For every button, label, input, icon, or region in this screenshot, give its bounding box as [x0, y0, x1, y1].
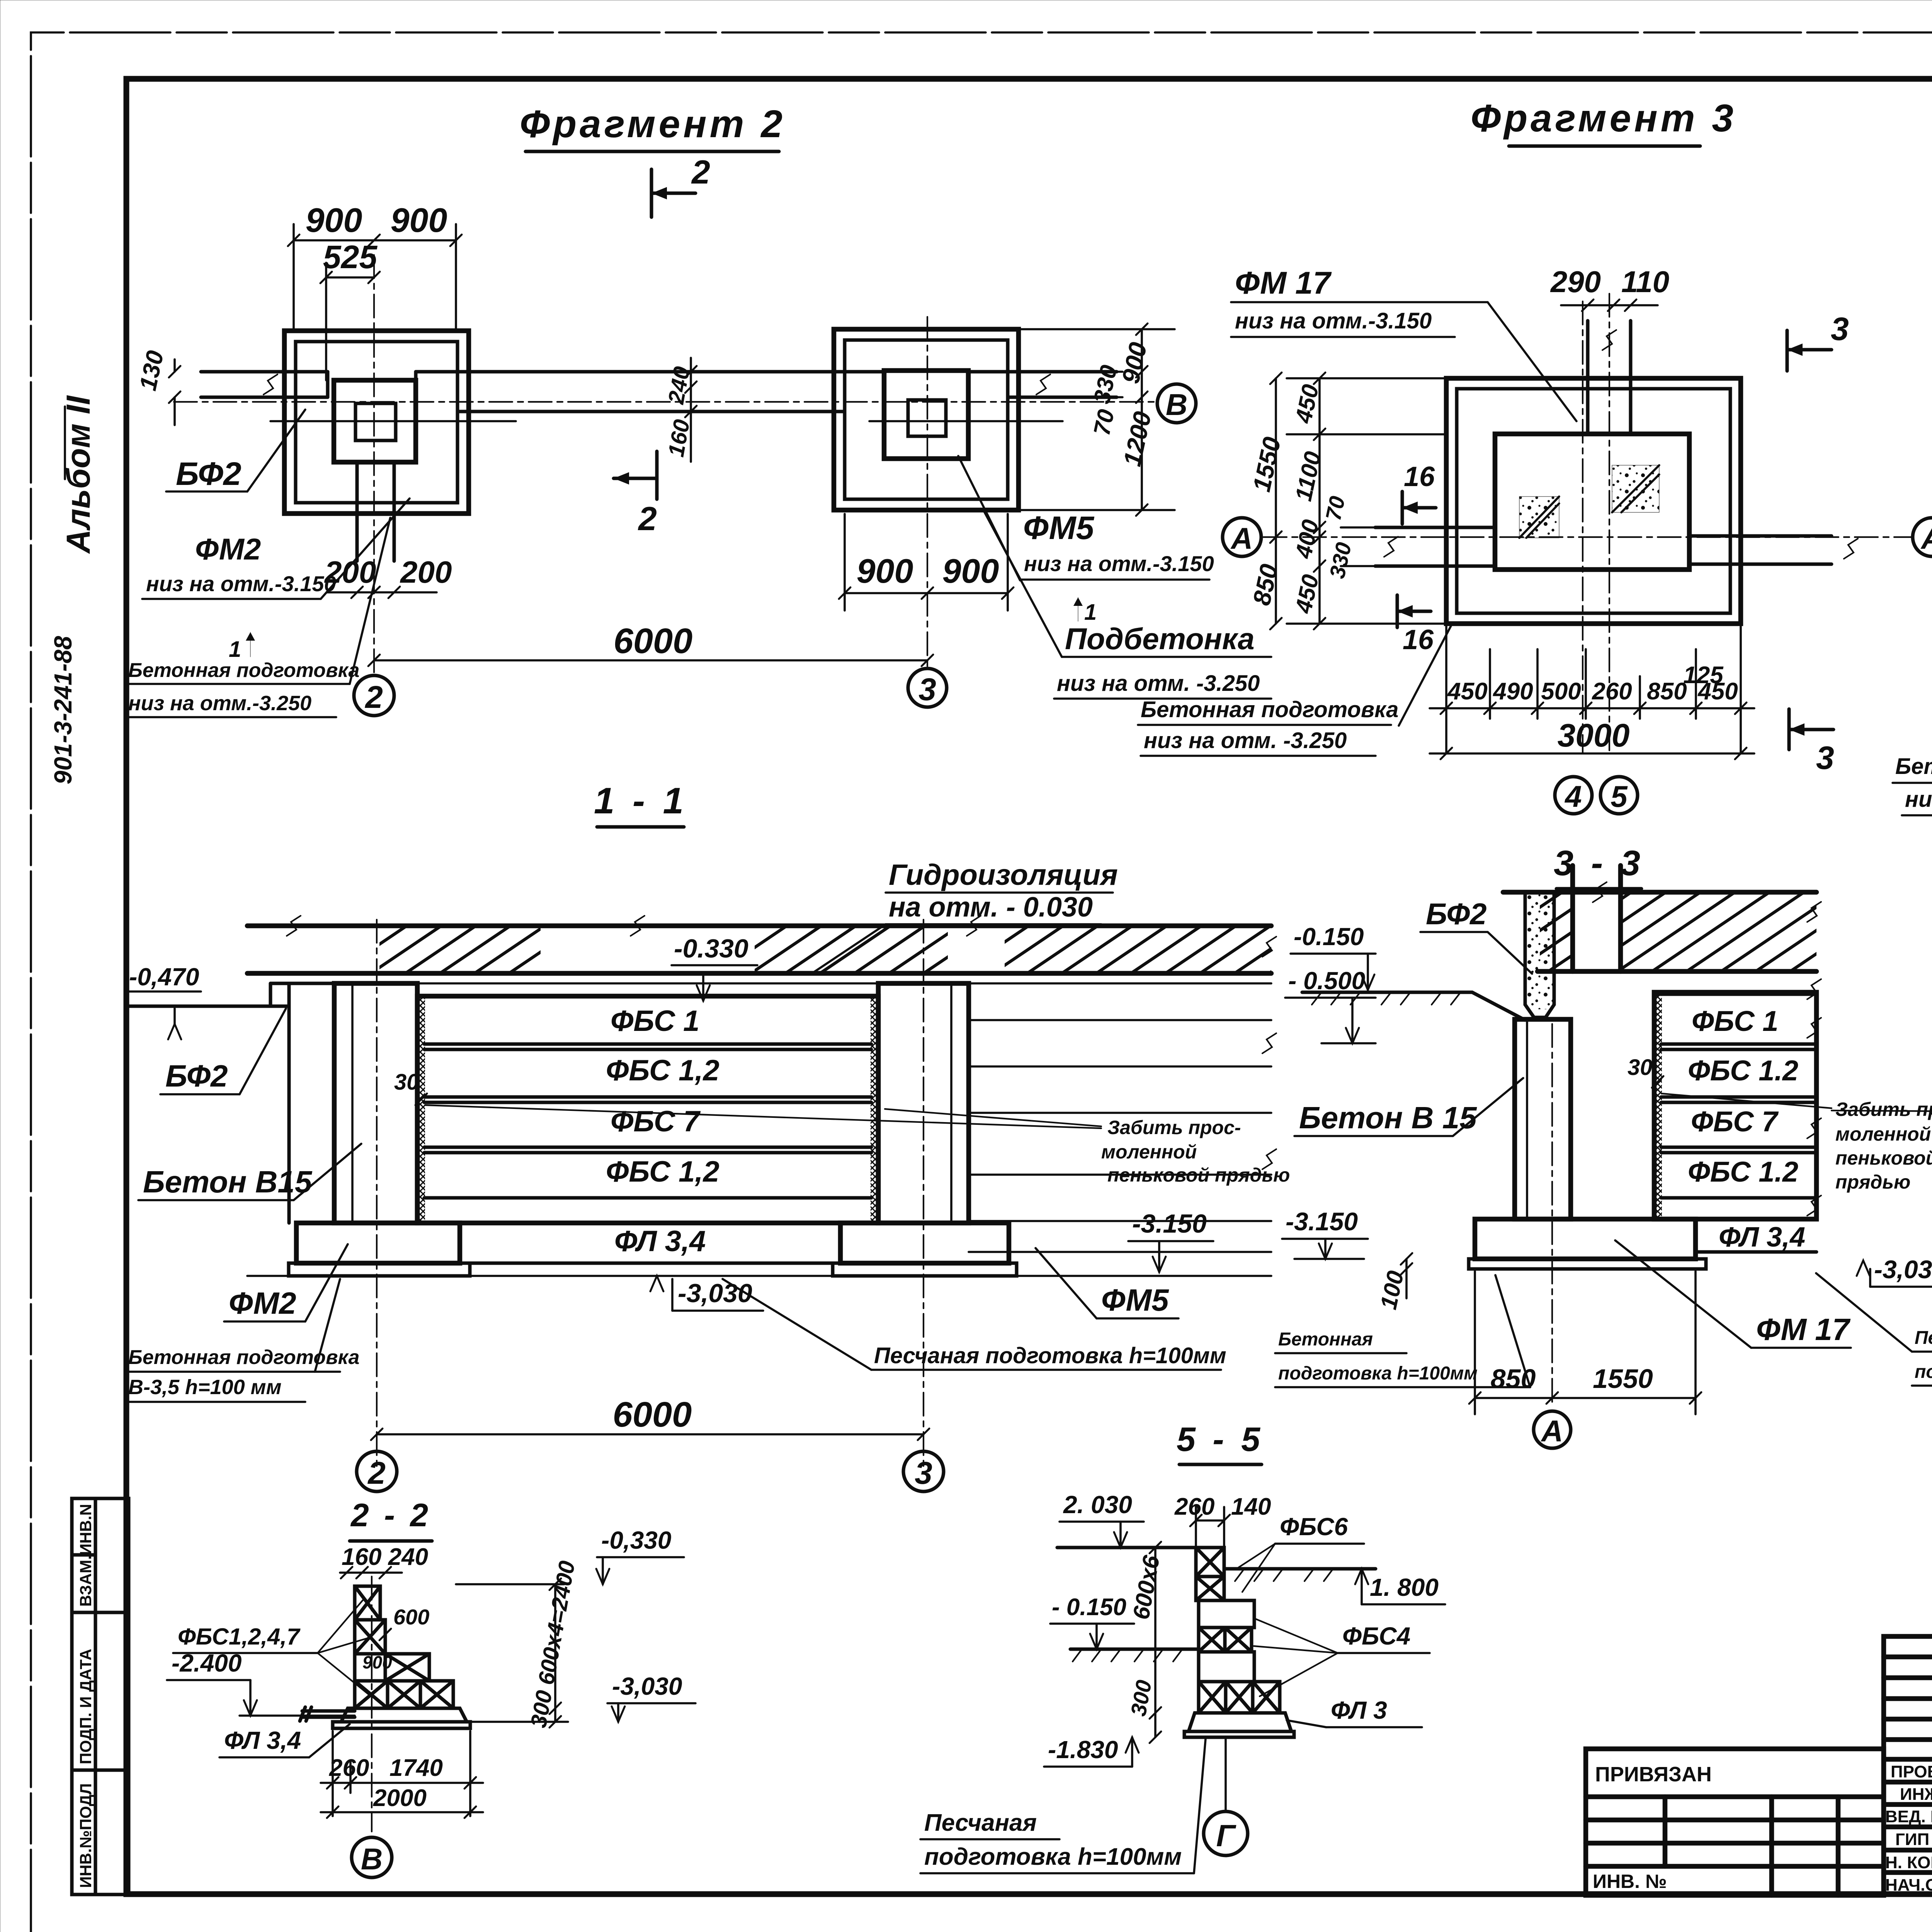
svg-text:ФБС 1: ФБС 1 [611, 1005, 699, 1037]
svg-text:900: 900 [391, 201, 447, 239]
grid bubble G [1204, 1811, 1248, 1855]
svg-text:110: 110 [1621, 265, 1669, 299]
dim 900 900 over FM2 [294, 224, 456, 331]
svg-text:Песчаная подготовка h=100мм: Песчаная подготовка h=100мм [874, 1343, 1226, 1368]
svg-text:-3.150: -3.150 [1286, 1207, 1358, 1236]
label FM2 low mark [142, 498, 410, 599]
svg-text:Г: Г [1216, 1818, 1236, 1853]
svg-text:290: 290 [1550, 265, 1601, 299]
label zabit 3-3 [1835, 1099, 1932, 1193]
F3 inner square [1457, 389, 1730, 613]
svg-text:1: 1 [1084, 600, 1097, 625]
svg-text:525: 525 [323, 239, 378, 275]
svg-text:низ на отм.-3.250: низ на отм.-3.250 [128, 692, 311, 715]
FM2 pier strip down [357, 462, 394, 561]
svg-text:ФБС 7: ФБС 7 [1691, 1105, 1779, 1138]
slab break marks [287, 916, 301, 936]
label concrete prep bottom left [128, 518, 390, 717]
svg-text:160 240: 160 240 [342, 1544, 428, 1570]
label podbetonka [983, 510, 1271, 699]
svg-text:пеньковой прядью: пеньковой прядью [1107, 1164, 1290, 1186]
svg-text:6000: 6000 [614, 621, 693, 661]
section 1-1 title [594, 780, 687, 827]
section marker 16 upper [1402, 461, 1436, 524]
level -3.150 right [1128, 1209, 1213, 1272]
svg-text:260: 260 [1592, 678, 1632, 705]
level mark -0,470 [128, 963, 201, 1039]
svg-text:низ на отм.-3.150: низ на отм.-3.150 [1235, 308, 1432, 333]
svg-text:ФМ2: ФМ2 [195, 532, 261, 566]
svg-text:В: В [1166, 388, 1187, 422]
svg-text:ФБС 1.2: ФБС 1.2 [1688, 1156, 1798, 1188]
beam BF2 left stub [201, 372, 328, 397]
svg-text:-2.400: -2.400 [172, 1649, 241, 1677]
section marker 3 bottom [1789, 709, 1834, 776]
dim 6000 section 1-1 [377, 1433, 923, 1435]
svg-text:850: 850 [1647, 678, 1687, 705]
svg-text:2: 2 [691, 154, 710, 191]
svg-text:900: 900 [306, 201, 362, 239]
grid bubble 2 [354, 675, 394, 716]
left pedestal [296, 1223, 460, 1263]
svg-text:низ на отм -3.250: низ на отм -3.250 [1905, 787, 1932, 812]
2-2 title [350, 1497, 432, 1541]
svg-text:ФМ 17: ФМ 17 [1756, 1312, 1851, 1347]
left inventory strip table [72, 1498, 129, 1895]
svg-text:2 - 2: 2 - 2 [350, 1497, 431, 1533]
section 1 arrow marker right [1073, 597, 1097, 625]
3-3 dim 850 1550 [1475, 1271, 1696, 1414]
svg-text:низ на отм. -3.250: низ на отм. -3.250 [1144, 728, 1347, 753]
svg-text:70: 70 [1321, 494, 1350, 522]
svg-text:500: 500 [1541, 678, 1581, 705]
F3 left beam [1375, 527, 1495, 566]
svg-text:ФЛ 3,4: ФЛ 3,4 [224, 1726, 301, 1754]
svg-text:2: 2 [364, 680, 383, 715]
svg-text:А: А [1541, 1414, 1563, 1448]
svg-text:Бетонная подготовка: Бетонная подготовка [128, 659, 359, 682]
svg-text:Бетонная подготовка: Бетонная подготовка [1141, 697, 1398, 722]
svg-text:ФМ2: ФМ2 [229, 1286, 296, 1320]
left baseplate [289, 1263, 470, 1276]
5-5 label sand prep [920, 1739, 1206, 1873]
svg-text:1200: 1200 [1118, 409, 1156, 469]
svg-text:200: 200 [400, 555, 452, 589]
level -3,030 [650, 1276, 763, 1311]
svg-text:низ на отм. -3.250: низ на отм. -3.250 [1057, 671, 1260, 696]
grid axis 3 vertical centerline [927, 317, 928, 667]
svg-text:БФ2: БФ2 [176, 456, 241, 492]
2-2 level -3,030 right [383, 1672, 696, 1722]
svg-text:130: 130 [134, 348, 169, 393]
label FM5 below [1036, 1248, 1179, 1318]
svg-text:ГИП: ГИП [1895, 1830, 1929, 1849]
foundation FM5 inner square [845, 340, 1008, 499]
svg-text:прядью: прядью [1835, 1171, 1910, 1193]
label FM17 3-3 [1615, 1240, 1851, 1348]
svg-text:600: 600 [393, 1605, 429, 1629]
svg-text:низ на отм.-3.150: низ на отм.-3.150 [146, 571, 336, 596]
svg-text:450: 450 [1447, 678, 1487, 705]
svg-text:ИНВ. №: ИНВ. № [1593, 1871, 1667, 1892]
svg-text:Песчаная: Песчаная [924, 1810, 1037, 1836]
3-3 baseplate [1469, 1259, 1706, 1269]
section 5-5 title [1177, 1420, 1264, 1464]
section marker 2 bottom [614, 451, 657, 537]
fragment 3 title [1471, 97, 1736, 146]
svg-text:Забить прос-: Забить прос- [1835, 1099, 1932, 1120]
dim 100 3-3 [1405, 1259, 1408, 1298]
svg-text:490: 490 [1492, 678, 1533, 705]
dim 290 110 top [1561, 304, 1658, 306]
2-2 block stack [333, 1586, 470, 1728]
5-5 leader to G bubble [1225, 1737, 1227, 1811]
svg-text:моленной: моленной [1835, 1123, 1931, 1145]
svg-text:125: 125 [1683, 662, 1724, 689]
svg-text:В-3,5 h=100 мм: В-3,5 h=100 мм [128, 1376, 282, 1399]
svg-text:260: 260 [1174, 1493, 1214, 1520]
svg-text:-1.830: -1.830 [1048, 1736, 1118, 1764]
fragment 2 title [520, 102, 786, 151]
svg-text:ИНЖ: ИНЖ [1900, 1785, 1932, 1804]
svg-text:900: 900 [362, 1652, 392, 1672]
svg-text:1740: 1740 [389, 1755, 443, 1781]
svg-text:30: 30 [394, 1070, 419, 1095]
svg-text:3: 3 [1831, 311, 1849, 347]
svg-text:на отм. - 0.030: на отм. - 0.030 [889, 892, 1093, 923]
label FM5 low mark [958, 456, 1214, 580]
beam width dim 160 240 mid-span [690, 358, 692, 462]
svg-text:БФ2: БФ2 [165, 1059, 228, 1093]
opening notch in FM2 right side [414, 372, 418, 412]
svg-text:БФ2: БФ2 [1426, 897, 1487, 931]
top slab band lines [247, 926, 1271, 973]
grid axis 2 vertical centerline [373, 255, 375, 674]
label concrete prep fragment4 [1893, 653, 1932, 815]
svg-text:Бетон В15: Бетон В15 [143, 1165, 313, 1199]
label concrete prep 1-1 [126, 1279, 359, 1402]
3-3 monolithic concrete strip BF2 [1525, 892, 1554, 1017]
5-5 dim 600x6 [1154, 1548, 1156, 1737]
beam axis horizontal centerline [174, 401, 1159, 403]
wall joint hatch strips [417, 996, 425, 1223]
5-5 stack [1184, 1548, 1294, 1737]
svg-text:ФБС6: ФБС6 [1280, 1513, 1348, 1541]
3-3 top slab band [1503, 892, 1816, 971]
svg-text:Фрагмент 2: Фрагмент 2 [520, 102, 786, 146]
svg-text:-3,030: -3,030 [678, 1279, 752, 1308]
svg-text:-0.330: -0.330 [674, 934, 748, 963]
right baseplate [833, 1263, 1017, 1276]
F3 left dim chain inner [1287, 378, 1446, 624]
svg-text:ФЛ 3,4: ФЛ 3,4 [614, 1225, 706, 1258]
svg-text:2. 030: 2. 030 [1063, 1491, 1132, 1519]
svg-text:900: 900 [857, 552, 913, 590]
wall row lines [424, 1044, 871, 1198]
svg-text:пеньковой: пеньковой [1835, 1147, 1932, 1169]
grid bubble A left [1223, 518, 1261, 556]
signature rows labels [1885, 1762, 1932, 1895]
3-3 slab hatch [1540, 895, 1573, 969]
svg-text:ПОДП. И ДАТА: ПОДП. И ДАТА [77, 1649, 95, 1764]
section 3-3 title [1554, 844, 1644, 889]
svg-text:4: 4 [1564, 779, 1582, 813]
svg-text:ФМ5: ФМ5 [1101, 1283, 1169, 1317]
svg-text:ФБС4: ФБС4 [1342, 1622, 1410, 1650]
FBS wall between columns [417, 996, 878, 1223]
dim 6000 between axes [374, 659, 927, 662]
5-5 level 1.800 [1355, 1569, 1445, 1604]
svg-text:Бетонная подготовка: Бетонная подготовка [128, 1346, 359, 1369]
grid bubble A right (shared with fragment 4) [1913, 518, 1932, 556]
F3 outer square [1446, 378, 1741, 624]
sand bed line [247, 1275, 1271, 1277]
F3 right beam [1689, 536, 1832, 564]
3-3 FBS wall right [1654, 992, 1816, 1219]
svg-text:16: 16 [1404, 461, 1435, 492]
svg-text:5 - 5: 5 - 5 [1177, 1420, 1264, 1458]
svg-text:901-3-241-88: 901-3-241-88 [49, 636, 77, 784]
svg-text:А: А [1230, 521, 1253, 555]
svg-text:- 0.150: - 0.150 [1052, 1594, 1126, 1621]
svg-text:моленной: моленной [1101, 1141, 1197, 1163]
5-5 level 2.030 [1060, 1491, 1144, 1548]
svg-text:850: 850 [1491, 1364, 1536, 1394]
3-3 ground line left [1302, 992, 1525, 1020]
svg-text:1550: 1550 [1593, 1364, 1653, 1394]
grid bubble 3 [908, 668, 947, 707]
svg-text:Бетонная: Бетонная [1278, 1329, 1373, 1350]
svg-text:ФМ 17: ФМ 17 [1235, 265, 1332, 301]
grid bubble B 2-2 [352, 1837, 392, 1878]
svg-text:Бетонная подготовка: Бетонная подготовка [1895, 754, 1932, 779]
svg-text:2: 2 [367, 1456, 386, 1491]
svg-text:Песчаная: Песчаная [1915, 1328, 1932, 1348]
3-3 FL row right of pedestal [1696, 1219, 1816, 1252]
label FM17 [1231, 265, 1577, 421]
svg-text:2: 2 [638, 500, 657, 537]
label FM2 below [224, 1244, 348, 1321]
dim 900 900 below FM5 [845, 514, 1008, 611]
svg-text:-3,030: -3,030 [612, 1672, 682, 1700]
label BF2 3-3 [1420, 897, 1532, 974]
foundation FM2 outer square [284, 331, 469, 514]
F3 column strip up [1573, 321, 1647, 434]
svg-text:- 0.500: - 0.500 [1288, 967, 1365, 995]
svg-text:3 - 3: 3 - 3 [1554, 844, 1644, 883]
svg-text:330: 330 [1088, 363, 1122, 406]
svg-text:-3.150: -3.150 [1132, 1209, 1207, 1238]
dim 525 [326, 263, 374, 380]
svg-text:5: 5 [1611, 779, 1628, 813]
2-2 beam stub left [300, 1707, 355, 1721]
label sand prep 3-3/4-4 [1816, 1273, 1932, 1386]
2-2 dim 2000 [321, 1811, 483, 1813]
svg-text:-0,470: -0,470 [129, 963, 199, 991]
section marker 2 top [651, 154, 710, 217]
level -0.500 [1285, 967, 1376, 1043]
5-5 label FL 3 [1287, 1696, 1422, 1727]
svg-text:НАЧ.ОТД: НАЧ.ОТД [1885, 1876, 1932, 1895]
foundation FM2 inner square [296, 342, 457, 503]
F3 concrete pocket right [1612, 465, 1659, 512]
svg-text:В: В [361, 1842, 383, 1876]
2-2 level -2.400 [167, 1649, 355, 1716]
level mark -0.330 [672, 934, 757, 1001]
grid bubble B fragment2 [1157, 384, 1196, 423]
5-5 level -0.150 [1050, 1594, 1134, 1649]
svg-text:Бетон В 15: Бетон В 15 [1299, 1100, 1477, 1135]
label Beton B15 [138, 1144, 361, 1200]
svg-text:-3,030: -3,030 [1874, 1255, 1932, 1284]
svg-text:ФМ5: ФМ5 [1023, 510, 1095, 546]
left ledge -0.470 [128, 983, 334, 1223]
F3 total dim 3000 [1430, 752, 1754, 755]
svg-text:6000: 6000 [613, 1395, 692, 1434]
svg-text:Забить прос-: Забить прос- [1107, 1117, 1241, 1138]
label concrete prep 3-3 [1275, 1275, 1530, 1387]
block labels [606, 1005, 719, 1188]
svg-text:Н. КОНТР: Н. КОНТР [1885, 1853, 1932, 1872]
F3 concrete pocket left [1519, 497, 1559, 538]
dim chain right of FM5: 900/330/70/1200 [1019, 329, 1175, 510]
svg-text:ПРИВЯЗАН: ПРИВЯЗАН [1595, 1763, 1712, 1786]
2-2 vertical dim 600x4=2400 / 300 [554, 1584, 556, 1722]
right pedestal [840, 1223, 1009, 1263]
3-3 rising column above [1573, 866, 1621, 971]
5-5 label FBS6 [1236, 1513, 1364, 1592]
5-5 label FBS4 [1254, 1619, 1430, 1696]
svg-text:1 - 1: 1 - 1 [594, 780, 687, 821]
right column FM5 [878, 983, 969, 1223]
F3 bottom dim chain [1430, 626, 1754, 753]
svg-text:3000: 3000 [1558, 717, 1630, 753]
svg-text:850: 850 [1247, 561, 1283, 607]
3-3 pedestal [1475, 1219, 1696, 1259]
svg-text:70: 70 [1088, 407, 1119, 437]
svg-text:ФБС 1.2: ФБС 1.2 [1688, 1054, 1798, 1087]
svg-text:Подбетонка: Подбетонка [1065, 622, 1255, 656]
svg-text:подготовка h=100мм: подготовка h=100мм [924, 1844, 1182, 1870]
5-5 ground left [1070, 1648, 1199, 1651]
break mark on left beam [264, 374, 277, 395]
grid bubble 3 below 1-1 [903, 1451, 944, 1492]
foundation FM5 outer square [834, 329, 1019, 510]
5-5 ground right [1224, 1567, 1376, 1571]
2-2 label FL 3,4 [219, 1724, 350, 1757]
svg-text:ФЛ 3: ФЛ 3 [1331, 1696, 1387, 1724]
grid bubbles 4 and 5 fragment 3 [1555, 777, 1592, 814]
FM2 cup square [355, 403, 396, 440]
svg-text:16: 16 [1403, 624, 1434, 655]
slab hatch left segment [379, 928, 541, 971]
svg-text:30: 30 [1628, 1055, 1653, 1080]
svg-text:ВЗАМ.ИНВ.N: ВЗАМ.ИНВ.N [77, 1504, 95, 1607]
svg-text:ФЛ 3,4: ФЛ 3,4 [1719, 1222, 1805, 1253]
svg-text:2000: 2000 [373, 1785, 427, 1811]
left column FM2 [334, 983, 417, 1223]
svg-text:900: 900 [1116, 340, 1152, 386]
svg-text:330: 330 [1325, 540, 1356, 580]
svg-text:ИНВ.№ПОДЛ: ИНВ.№ПОДЛ [77, 1783, 95, 1888]
section marker 16 lower [1397, 595, 1434, 655]
svg-text:-0.150: -0.150 [1294, 923, 1364, 951]
beam between axis 2 and 3 [416, 372, 884, 412]
svg-text:900: 900 [942, 552, 999, 590]
svg-text:ФБС 1,2: ФБС 1,2 [606, 1155, 719, 1188]
privyazan table [1586, 1749, 1884, 1895]
grid bubble A 3-3 [1534, 1411, 1571, 1448]
FM5 pedestal [884, 371, 968, 459]
F3 left dim chain outer 1550/850 [1275, 378, 1277, 624]
slab hatch middle segment [755, 928, 948, 971]
label sand prep 1-1 [723, 1279, 1226, 1370]
svg-text:1550: 1550 [1247, 435, 1286, 494]
2-2 dim 260 1740 [321, 1731, 483, 1816]
svg-text:подготовка h=100мм: подготовка h=100мм [1915, 1362, 1932, 1382]
2-2 level -0,330 right [456, 1526, 684, 1584]
3-3 main column [1515, 1019, 1571, 1219]
F3 axis A centerline horizontal [1264, 536, 1913, 538]
grid centerline axis 3 [923, 920, 924, 1468]
svg-text:1: 1 [229, 637, 241, 662]
section 1 arrow marker left bottom [229, 632, 255, 662]
5-5 level -1.830 [1044, 1736, 1139, 1767]
label Beton B15 3-3 [1294, 1078, 1523, 1136]
level -3.150 3-3 [1282, 1207, 1368, 1259]
label betonnaya podgotovka F3 [1138, 626, 1451, 756]
svg-text:Фрагмент 3: Фрагмент 3 [1471, 97, 1736, 140]
section marker 3 top [1787, 311, 1849, 371]
FM5 beam stub right [968, 372, 1117, 397]
label BF2 left [160, 1009, 286, 1094]
svg-text:Гидроизоляция: Гидроизоляция [889, 859, 1118, 891]
level -3,030 3-3 [1857, 1255, 1932, 1287]
svg-text:ПРОВЕР.: ПРОВЕР. [1891, 1762, 1932, 1781]
slab hatch right segment [1005, 928, 1271, 971]
svg-text:300: 300 [1126, 1678, 1156, 1718]
2-2 label FBS1247 [173, 1600, 371, 1696]
svg-text:А: А [1920, 521, 1932, 555]
3-3 soil hatch ticks [1312, 992, 1461, 1005]
right side thin floor lines [969, 1020, 1271, 1252]
label zabit pros level [1101, 1117, 1290, 1186]
dim 200 200 below FM2 [327, 591, 437, 594]
svg-text:1. 800: 1. 800 [1370, 1573, 1439, 1601]
label hydroinsulation [811, 859, 1118, 974]
svg-text:ФБС1,2,4,7: ФБС1,2,4,7 [178, 1624, 301, 1650]
label BF2 [166, 410, 305, 492]
svg-text:ФБС 7: ФБС 7 [611, 1105, 701, 1138]
grid centerline axis 2 [376, 920, 378, 1468]
svg-text:-0,330: -0,330 [601, 1526, 671, 1554]
grid bubble 2 below 1-1 [357, 1451, 397, 1492]
svg-text:ВЕД. ИНЖ: ВЕД. ИНЖ [1885, 1807, 1932, 1826]
svg-text:140: 140 [1231, 1493, 1271, 1520]
F3 column centerline [1609, 294, 1610, 753]
F3 pedestal [1495, 434, 1689, 570]
FL row between pedestals [460, 1262, 840, 1265]
2-2 centerline [371, 1577, 372, 1832]
svg-text:100: 100 [1375, 1269, 1408, 1312]
svg-text:3: 3 [918, 672, 936, 707]
svg-text:ФБС 1: ФБС 1 [1692, 1005, 1778, 1037]
level -0.150 [1291, 923, 1376, 990]
title block outline [1884, 1636, 1932, 1895]
svg-text:3: 3 [1816, 740, 1834, 776]
FM2 pedestal [334, 380, 416, 462]
svg-text:3: 3 [915, 1456, 932, 1491]
